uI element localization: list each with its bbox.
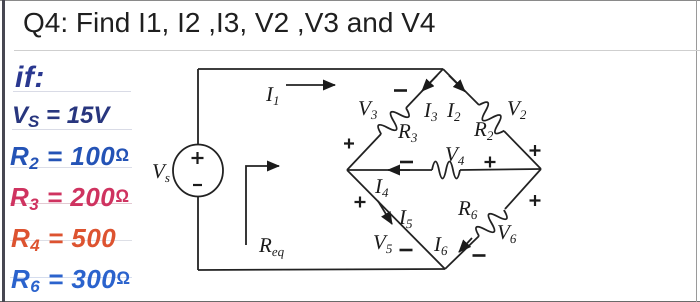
svg-text:R2: R2: [473, 117, 494, 143]
minus sign top (V3 negative): [394, 89, 407, 92]
svg-text:V4: V4: [445, 142, 465, 168]
ruled line 6: [10, 277, 132, 278]
Req measuring arrow (corner with right arrow): [246, 166, 279, 245]
handwritten note "R3 = 200 ohm": [10, 182, 129, 215]
plus sign V5 positive: [355, 197, 366, 208]
plus sign inside source: [192, 152, 204, 164]
ruled line 5: [10, 240, 132, 241]
svg-text:R6: R6: [457, 196, 478, 222]
left dark sidebar strip: [2, 0, 5, 302]
branch R4 wire right segment: [460, 169, 541, 170]
svg-text:I6: I6: [433, 232, 448, 258]
branch R3 wire upper segment (top node to squiggle): [406, 69, 443, 108]
top border line: [0, 0, 700, 1]
plus sign V2 positive: [530, 145, 541, 156]
wire left upper (source top lead): [197, 69, 199, 145]
minus sign inside source: [193, 184, 202, 186]
branch R3 wire lower segment (squiggle to left node): [347, 134, 381, 170]
resistor R3 squiggle: [375, 102, 411, 139]
handwritten note "R4 = 500": [11, 223, 116, 256]
ruled line 3: [10, 167, 132, 168]
branch I5 wire (left node to bottom node): [347, 170, 445, 269]
handwritten note "Vs = 15V": [12, 102, 109, 132]
current arrow I1: [286, 84, 335, 86]
svg-text:I2: I2: [446, 98, 461, 124]
branch R6 wire lower segment (bottom node to squiggle): [445, 236, 479, 269]
bottom border line: [0, 301, 700, 302]
right border line: [696, 0, 697, 302]
title text: [23, 9, 435, 37]
handwritten note "R2 = 100 ohm": [10, 141, 129, 174]
svg-text:I1: I1: [265, 82, 280, 108]
svg-text:V2: V2: [507, 96, 527, 122]
plus sign V6 positive: [530, 195, 541, 206]
branch R4 wire left segment: [347, 169, 432, 171]
resistor R2 squiggle: [473, 99, 510, 136]
branch R2 wire upper segment: [443, 69, 479, 105]
svg-text:I3: I3: [423, 98, 438, 124]
svg-text:V3: V3: [358, 96, 378, 122]
svg-text:Vs: Vs: [152, 159, 170, 185]
handwritten note "if:": [15, 61, 45, 95]
branch R2 wire lower segment: [504, 131, 541, 169]
minus sign V4 negative: [400, 161, 413, 164]
plus sign V4 positive: [485, 157, 496, 168]
arrowhead I4 on R4 branch: [388, 169, 410, 171]
wire bottom from source to bottom node: [198, 269, 445, 270]
ruled line 4: [10, 203, 132, 204]
title separator rule: [14, 50, 700, 51]
svg-text:I4: I4: [374, 174, 389, 200]
arrowhead I2 on R2 branch: [449, 76, 465, 92]
minus sign V6 negative: [473, 254, 486, 257]
svg-text:I5: I5: [398, 205, 413, 231]
arrowhead I5 on V5 branch: [378, 201, 392, 224]
resistor R6 squiggle: [473, 204, 509, 241]
voltage source Vs circle: [173, 145, 223, 197]
handwritten note "R6 = 300 ohm": [11, 264, 130, 297]
resistor R4 squiggle: [432, 162, 460, 179]
wire left lower (source bottom lead): [197, 196, 199, 270]
minus sign V5 negative: [400, 249, 413, 252]
ruled line 2: [12, 129, 132, 130]
arrowhead I3 on R3 branch: [422, 76, 437, 92]
svg-text:Req: Req: [258, 233, 285, 259]
arrowhead I6 on R6 branch: [459, 238, 472, 252]
ruled line 1: [13, 91, 131, 92]
svg-text:V5: V5: [373, 230, 393, 256]
plus sign V3 positive: [344, 139, 354, 149]
branch R6 wire upper segment (squiggle to right node): [505, 169, 541, 209]
svg-text:V6: V6: [497, 220, 517, 246]
svg-text:R3: R3: [397, 119, 418, 145]
wire top from source to top node: [198, 68, 443, 70]
